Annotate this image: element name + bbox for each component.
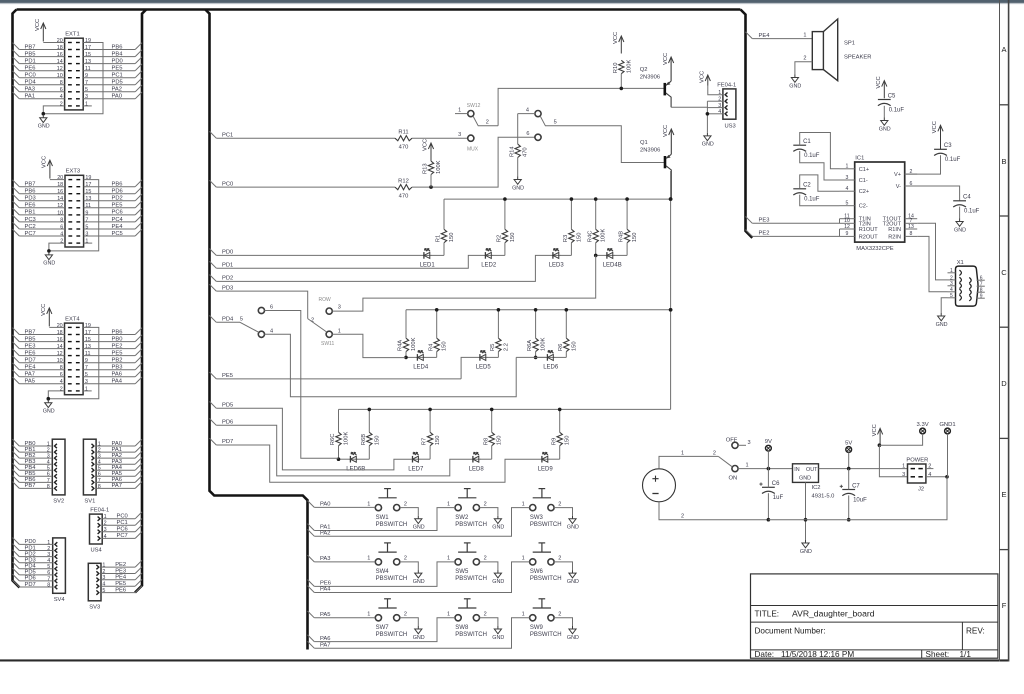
svg-text:100K: 100K — [436, 160, 442, 174]
bus entry — [13, 342, 20, 349]
wire EXT3 to PD6 — [84, 193, 136, 195]
wire PE3 to IC1 pin10 — [752, 222, 839, 224]
wire LED row1 rail — [444, 198, 671, 200]
bus entry — [13, 556, 20, 563]
wire PA3 to EXT1 — [19, 91, 64, 93]
svg-text:2: 2 — [484, 501, 487, 507]
wire PB2 to SV2 pin3 — [19, 457, 52, 459]
SW12 lever pole 1 — [473, 116, 498, 126]
svg-text:SW4: SW4 — [376, 569, 390, 575]
wire R6A down — [535, 352, 537, 358]
svg-text:PA5: PA5 — [112, 471, 123, 477]
svg-text:PA6: PA6 — [320, 636, 331, 642]
svg-text:17: 17 — [85, 182, 91, 188]
svg-text:PC1: PC1 — [117, 520, 128, 526]
ground at SW2 — [492, 516, 504, 531]
wire LED6 cathode — [516, 356, 546, 358]
svg-text:V-: V- — [896, 184, 901, 190]
junction — [497, 308, 501, 312]
svg-text:C1-: C1- — [859, 178, 868, 184]
svg-text:C4: C4 — [963, 195, 971, 201]
svg-text:PE4: PE4 — [759, 33, 771, 39]
bus entry — [135, 560, 142, 567]
svg-text:4: 4 — [846, 186, 849, 192]
svg-text:PA4: PA4 — [112, 465, 123, 471]
wire LED5 to PE5 riser — [461, 357, 478, 379]
wire SW11 pin4 to LED6 node — [264, 334, 516, 397]
svg-text:1: 1 — [950, 268, 953, 274]
svg-text:PD0: PD0 — [222, 250, 233, 256]
test point 5V — [845, 440, 852, 452]
resistor R14 — [509, 144, 528, 157]
wire EXT3 to PB6 — [84, 186, 136, 188]
svg-text:SW12: SW12 — [467, 103, 481, 109]
ground at C4 — [954, 219, 966, 234]
bus entry — [210, 131, 217, 138]
svg-text:VCC: VCC — [932, 121, 938, 133]
wire Q1 collector rail vertical — [670, 199, 672, 409]
junction — [570, 197, 574, 201]
ground at C5 — [879, 118, 891, 133]
svg-text:2: 2 — [558, 556, 561, 562]
svg-text:SP1: SP1 — [844, 40, 855, 46]
wire X1 pin5 to GND — [941, 298, 947, 313]
svg-text:PE2: PE2 — [112, 343, 123, 349]
wire PC0 to EXT1 — [19, 77, 64, 79]
svg-text:AVR_daughter_board: AVR_daughter_board — [792, 609, 875, 619]
wire PB5 to SV2 pin6 — [19, 475, 52, 477]
wire SV3 pin3 to PE4 — [101, 579, 135, 581]
svg-text:PC0: PC0 — [117, 514, 128, 520]
svg-text:LED2: LED2 — [481, 263, 497, 269]
wire R9 down — [559, 446, 561, 460]
wire R4C down — [595, 243, 597, 256]
svg-text:PA2: PA2 — [112, 87, 123, 93]
junction — [594, 197, 598, 201]
svg-text:PD0: PD0 — [25, 539, 36, 545]
svg-text:2: 2 — [404, 501, 407, 507]
svg-text:PC2: PC2 — [25, 224, 36, 230]
wire SV3 pin2 to PE3 — [101, 573, 135, 575]
svg-text:1: 1 — [803, 32, 806, 38]
bus entry — [746, 230, 753, 237]
bus entry — [135, 445, 142, 452]
junction — [767, 467, 771, 471]
ground at IC2 — [800, 540, 812, 555]
svg-text:150: 150 — [442, 341, 448, 351]
svg-text:GND: GND — [512, 185, 524, 191]
bus entry — [135, 463, 142, 470]
ground at speaker — [789, 75, 801, 90]
push button SW3 — [522, 489, 562, 528]
capacitor C2 — [793, 183, 819, 203]
wire PA5 to SW7 — [314, 617, 375, 619]
svg-text:150: 150 — [565, 436, 571, 446]
svg-text:PE6: PE6 — [320, 581, 331, 587]
svg-text:C3: C3 — [944, 143, 952, 149]
bus entry — [135, 85, 142, 92]
wire SW3 pin2 to GND — [554, 508, 572, 516]
svg-text:GND: GND — [567, 579, 579, 585]
bus entry — [13, 335, 20, 342]
svg-text:150: 150 — [449, 233, 455, 243]
svg-text:R14: R14 — [509, 146, 515, 157]
svg-text:SW6: SW6 — [530, 569, 544, 575]
svg-text:PD5: PD5 — [25, 570, 36, 576]
junction — [42, 112, 46, 116]
svg-text:US4: US4 — [91, 548, 103, 554]
transistor Q1 2N3906 — [640, 134, 671, 200]
junction — [47, 397, 51, 401]
ground at EXT1 — [38, 115, 50, 130]
svg-text:Q2: Q2 — [640, 67, 648, 73]
svg-text:PE6: PE6 — [25, 203, 36, 209]
bus entry — [135, 451, 142, 458]
wire EXT4 to PB6 — [83, 334, 135, 336]
resistor R13 — [423, 160, 442, 174]
bus entry — [13, 222, 20, 229]
wire EXT4 to PB0 — [83, 341, 135, 343]
frame row letters — [1001, 45, 1007, 610]
svg-text:R5: R5 — [490, 344, 496, 351]
bus entry — [135, 335, 142, 342]
bus entry — [13, 476, 20, 483]
wire PB7 to EXT4 — [19, 334, 64, 336]
wire US3 gnd rail — [706, 101, 708, 133]
svg-text:Q1: Q1 — [640, 140, 648, 146]
svg-text:18: 18 — [57, 182, 63, 188]
wire C1 bottom to IC1 pin3 — [800, 151, 840, 180]
svg-text:R6A: R6A — [527, 340, 533, 351]
svg-text:LED7: LED7 — [408, 466, 424, 472]
bus entry — [13, 50, 20, 57]
svg-text:1: 1 — [447, 501, 450, 507]
svg-text:1: 1 — [902, 463, 905, 469]
svg-text:6: 6 — [60, 372, 63, 378]
svg-text:1: 1 — [846, 164, 849, 170]
junction — [669, 308, 673, 312]
VCC supply — [41, 304, 52, 327]
bus entry — [308, 555, 315, 562]
wire PD2 to LED3 — [216, 255, 551, 281]
wire LED4B to R4B — [614, 254, 627, 256]
wire US3 pin2 — [707, 100, 723, 102]
wire EXT1 to PB4 — [83, 56, 135, 58]
bus entry — [135, 342, 142, 349]
bus entry — [135, 470, 142, 477]
ground at X1 — [936, 313, 948, 328]
resistor R4 — [428, 338, 447, 351]
LED LED1 — [420, 249, 436, 269]
ground at SW7 — [413, 626, 425, 641]
wire IC1 pin12 tie — [839, 229, 841, 236]
wire R12 to SW12 pin6 — [412, 137, 535, 187]
bus entry — [308, 501, 315, 508]
svg-text:PD1: PD1 — [25, 58, 36, 64]
svg-text:R11: R11 — [398, 129, 408, 135]
resistor R6B — [361, 432, 380, 445]
junction — [503, 197, 507, 201]
wire IC1 pin11 tie — [839, 219, 841, 224]
svg-text:SW11: SW11 — [321, 341, 334, 347]
bus entry — [135, 222, 142, 229]
wire PB0 to SV2 pin1 — [19, 445, 52, 447]
svg-text:PB2: PB2 — [112, 358, 123, 364]
svg-text:3: 3 — [85, 379, 88, 385]
wire EXT3 to PC4 — [84, 221, 136, 223]
resistor R4B — [619, 229, 638, 242]
svg-text:PB5: PB5 — [25, 51, 36, 57]
svg-text:100K: 100K — [541, 337, 547, 351]
wire POWER pin4 to GND1 — [926, 476, 947, 478]
svg-text:GND: GND — [954, 227, 966, 233]
wire switch to IC2 IN — [738, 468, 792, 470]
wire PD4 to EXT1 — [19, 84, 64, 86]
svg-text:2: 2 — [558, 612, 561, 618]
svg-text:R4A: R4A — [398, 340, 404, 351]
junction — [620, 87, 624, 91]
wire IC2 GND — [805, 482, 807, 540]
bus entry — [210, 402, 217, 409]
ground at SW3 — [567, 516, 579, 531]
wire SW11 pin6 to LED6B node — [264, 311, 338, 459]
svg-text:OFF: OFF — [726, 438, 738, 444]
wire US3 pin4 — [707, 113, 723, 115]
bus entry — [13, 194, 20, 201]
svg-text:PA5: PA5 — [25, 379, 36, 385]
svg-text:13: 13 — [908, 224, 914, 230]
bus entry — [135, 567, 142, 574]
wire PB7 to EXT3 — [19, 186, 65, 188]
wire battery- to rail — [659, 502, 768, 520]
junction — [368, 408, 372, 412]
wire PC0 to R12 — [216, 186, 395, 188]
wire PE6 to EXT3 — [19, 207, 65, 209]
svg-text:PB0: PB0 — [112, 336, 123, 342]
wire PE4 to EXT4 — [19, 369, 64, 371]
svg-text:PD7: PD7 — [25, 358, 36, 364]
svg-text:GND: GND — [789, 83, 801, 89]
VCC at power — [872, 424, 883, 445]
svg-text:4: 4 — [270, 328, 273, 334]
svg-text:2: 2 — [484, 612, 487, 618]
resistor R11 — [395, 129, 412, 150]
wire R7 down — [429, 446, 431, 460]
wire PA1 to EXT1 — [19, 98, 64, 100]
IC IC1 MAX3232CPE — [840, 155, 918, 252]
svg-text:470: 470 — [399, 144, 409, 150]
VCC supply — [423, 139, 434, 161]
svg-text:3: 3 — [748, 440, 751, 446]
wire EXT3 to PE4 — [84, 228, 136, 230]
wire rail to R6A — [535, 310, 537, 338]
wire EXT1 to PC1 — [83, 77, 135, 79]
svg-text:150: 150 — [497, 436, 503, 446]
bus entry — [13, 470, 20, 477]
bus entry — [210, 372, 217, 379]
wire R4A down — [405, 352, 407, 358]
svg-text:SW9: SW9 — [530, 625, 544, 631]
svg-text:R8: R8 — [483, 438, 489, 445]
wire rail to R8 — [491, 409, 493, 432]
wire VCC to EXT1 pin20 — [43, 42, 64, 44]
svg-text:5: 5 — [846, 201, 849, 207]
svg-text:SW5: SW5 — [455, 569, 469, 575]
push button SW2 — [447, 489, 487, 528]
LED LED6B — [346, 452, 365, 472]
wire IC1 V+ to C3 — [905, 155, 941, 174]
svg-text:US3: US3 — [725, 124, 736, 130]
resistor R4A — [398, 337, 417, 351]
bus entry — [135, 586, 142, 593]
svg-text:9: 9 — [846, 231, 849, 237]
svg-text:C6: C6 — [772, 481, 780, 487]
svg-text:PC0: PC0 — [222, 181, 233, 187]
wire gnd rail mid — [768, 519, 848, 521]
svg-text:A: A — [1001, 45, 1006, 54]
svg-text:16: 16 — [57, 189, 63, 195]
svg-text:PA3: PA3 — [320, 556, 331, 562]
svg-text:5V: 5V — [845, 440, 852, 446]
wire EXT4 to PB2 — [83, 362, 135, 364]
svg-text:PA1: PA1 — [25, 94, 36, 100]
wire PB3 to SV2 pin4 — [19, 463, 52, 465]
wire rail to R3 — [570, 199, 572, 229]
wire EXT3 to PE5 — [84, 207, 136, 209]
svg-text:PA0: PA0 — [112, 94, 123, 100]
switch lever — [718, 456, 732, 466]
wire PC2 to EXT3 — [19, 228, 65, 230]
svg-text:0.1uF: 0.1uF — [889, 107, 905, 113]
svg-text:PE4: PE4 — [112, 224, 124, 230]
svg-text:2: 2 — [713, 450, 716, 456]
bus entry — [135, 363, 142, 370]
wire rail to R6C — [338, 409, 340, 432]
bus entry — [13, 439, 20, 446]
wire C5 to GND — [883, 106, 885, 118]
junction — [490, 408, 494, 412]
svg-text:2.2: 2.2 — [503, 343, 509, 351]
svg-text:PBSWITCH: PBSWITCH — [530, 522, 562, 528]
svg-text:GND: GND — [567, 635, 579, 641]
svg-text:1: 1 — [447, 556, 450, 562]
svg-text:6: 6 — [98, 472, 101, 478]
svg-text:SW7: SW7 — [376, 625, 390, 631]
svg-text:PBSWITCH: PBSWITCH — [530, 576, 562, 582]
svg-text:VCC: VCC — [663, 53, 669, 65]
junction — [669, 197, 673, 201]
bus entry — [13, 377, 20, 384]
bus entry — [13, 445, 20, 452]
push button SW5 — [447, 543, 487, 582]
bus entry — [135, 43, 142, 50]
push button SW9 — [522, 599, 562, 638]
LED LED6 — [543, 351, 559, 371]
svg-text:PC6: PC6 — [117, 527, 128, 533]
wire SW1 pin2 to GND — [400, 508, 419, 516]
bus second vertical x=142 — [135, 10, 146, 593]
wire IC1 V- to C4 — [905, 186, 960, 201]
wire R10 to Q2 base net — [620, 74, 622, 89]
bus entry — [13, 78, 20, 85]
svg-text:PA2: PA2 — [112, 453, 123, 459]
svg-text:2N3906: 2N3906 — [640, 148, 660, 154]
svg-text:0.1uF: 0.1uF — [964, 209, 980, 215]
wire C2 top to IC1 pin4 — [800, 175, 840, 191]
svg-text:1: 1 — [458, 107, 461, 113]
svg-text:9: 9 — [85, 210, 88, 216]
svg-text:VCC: VCC — [42, 156, 48, 168]
bus entry — [13, 544, 20, 551]
svg-text:TITLE:: TITLE: — [755, 610, 780, 619]
svg-text:FE04-1: FE04-1 — [90, 508, 109, 514]
wire PD5 to LED7 — [216, 408, 411, 470]
svg-text:R13: R13 — [423, 163, 429, 174]
wire gnd rail right — [849, 477, 947, 520]
wire LED1 to R1 — [431, 254, 444, 256]
bus entry — [13, 201, 20, 208]
svg-text:3.3V: 3.3V — [917, 422, 929, 428]
LED LED5 — [476, 351, 492, 371]
svg-text:PE4: PE4 — [25, 365, 37, 371]
wire PD4 to SW11 pin5 — [216, 321, 240, 323]
svg-text:Date:: Date: — [755, 650, 775, 659]
svg-text:C1: C1 — [803, 139, 811, 145]
resistor R12 — [395, 178, 412, 199]
svg-text:PE5: PE5 — [112, 203, 123, 209]
connector X1 (serial) — [948, 260, 985, 306]
svg-text:PA0: PA0 — [112, 441, 123, 447]
wire SW12 pin5 to Q1 base — [548, 126, 664, 163]
svg-text:PA0: PA0 — [320, 502, 331, 508]
wire PA4 to SW6 — [314, 562, 529, 593]
svg-text:B: B — [1001, 157, 1006, 166]
LED LED4 — [413, 351, 429, 371]
resistor R6 — [558, 338, 577, 351]
svg-text:Document Number:: Document Number: — [755, 626, 826, 635]
svg-text:4: 4 — [60, 379, 63, 385]
svg-text:SW2: SW2 — [455, 515, 469, 521]
svg-text:3: 3 — [338, 305, 341, 311]
wire SV3 pin5 to PE6 — [101, 592, 135, 594]
wire R6A node to LED6 — [536, 356, 546, 358]
wire PA6 to SW8 — [314, 618, 455, 642]
ground at EXT4 — [43, 400, 55, 415]
wire SV1 pin2 to PA1 — [96, 451, 135, 453]
wire SW4 pin2 to GND — [400, 562, 419, 570]
wire R4A node to LED4 — [406, 356, 416, 358]
connector SV1 — [83, 439, 96, 504]
push button SW6 — [522, 543, 562, 582]
svg-text:GND: GND — [492, 579, 504, 585]
VCC at Q1 — [663, 125, 674, 137]
resistor R10 — [613, 60, 632, 74]
svg-text:PD3: PD3 — [25, 196, 36, 202]
bus entry — [13, 208, 20, 215]
svg-text:6: 6 — [47, 472, 50, 478]
bus entry — [135, 64, 142, 71]
svg-text:470: 470 — [523, 147, 529, 157]
svg-text:C2-: C2- — [859, 204, 868, 210]
wire rail to R4A — [405, 310, 407, 338]
svg-text:LED8: LED8 — [469, 466, 485, 472]
svg-text:PB7: PB7 — [25, 44, 36, 50]
svg-text:PA6: PA6 — [112, 372, 123, 378]
svg-text:PE4: PE4 — [115, 575, 127, 581]
svg-text:LED4B: LED4B — [603, 263, 622, 269]
svg-text:PC7: PC7 — [25, 231, 36, 237]
wire EXT3 to PD2 — [84, 200, 136, 202]
